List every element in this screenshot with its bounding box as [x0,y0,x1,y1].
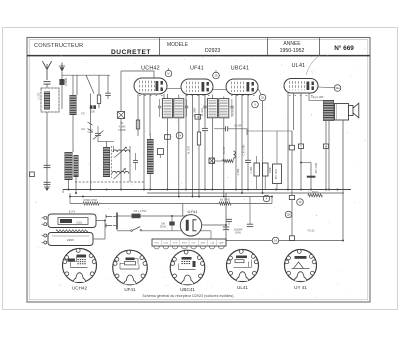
capacitor C4 to ground [44,181,51,183]
capacitor C16 electrolytic [307,176,316,178]
wire J2 out [93,238,105,240]
svg-text:MODELE: MODELE [167,42,189,48]
MF2 coupling dashes [217,100,219,116]
svg-text:F.B.L 0,75A: F.B.L 0,75A [134,210,147,213]
trimmer MF1 right [185,105,188,107]
svg-text:220V: 220V [67,238,75,242]
svg-text:50-60: 50-60 [160,226,167,229]
svg-text:PO: PO [81,113,85,116]
capacitor C2 feedthrough [59,79,64,85]
svg-text:ANNEE: ANNEE [283,41,301,47]
svg-text:6,3 V: 6,3 V [69,209,76,213]
wire MF1 sec down [178,118,180,197]
ref M [165,70,172,77]
svg-text:UBC41: UBC41 [180,287,195,292]
adjustable coil L7 [112,171,129,173]
IF transformer MF1 primary [162,99,172,118]
wire v77 [76,75,78,95]
svg-text:M: M [167,72,169,76]
box 12 small [289,195,294,199]
wire slanted [86,75,94,93]
ref 16b [272,237,279,244]
heater chain bumps [154,246,160,249]
svg-text:T: T [300,145,302,149]
ref 4 [263,195,270,202]
wire fuse out [141,215,187,217]
svg-text:UCH42: UCH42 [72,285,88,290]
wire UL41 pin1 [287,93,289,190]
capacitor C3 on lead [44,164,51,166]
svg-text:BL 187: BL 187 [224,146,226,154]
svg-text:25MF: 25MF [270,166,272,172]
ref 12b [285,211,292,218]
ref 16c [297,199,304,206]
wire MF1 sec top [178,95,180,99]
terminal lug [30,172,35,177]
svg-text:12a: 12a [335,86,340,90]
svg-text:0,1MF: 0,1MF [251,166,253,173]
box 14b [165,135,171,140]
wire UCH42 pin3 [149,94,151,136]
wire L4 to bus [75,177,77,193]
shield dashed bottom [75,181,145,183]
resistor R5 tall [273,164,282,184]
box T [298,144,303,148]
svg-text:45V 750Ω: 45V 750Ω [276,169,278,180]
svg-text:Bd 50HZ: Bd 50HZ [220,199,230,202]
box 14a [157,149,163,155]
socket view UBC41 [170,250,205,285]
coil L5 padding [103,147,110,177]
svg-text:Schéma général du récepteur D2: Schéma général du récepteur D2923 (voitu… [142,294,234,298]
svg-text:N° 669: N° 669 [334,44,354,52]
wire UL41 pin4 [308,93,310,101]
svg-text:1950-1952: 1950-1952 [280,48,305,54]
capacitor C6 pair [90,105,93,109]
output transformer primary [323,100,334,121]
svg-text:GO: GO [81,128,85,131]
pin number marks [139,95,141,97]
box 12 top [289,145,294,150]
socket view UL41 [227,250,259,282]
ref 12a [334,85,341,92]
wire UL41 pin3 to T [300,93,302,144]
sheet inner border [29,40,368,300]
heater line left [69,197,71,204]
svg-text:UF41: UF41 [124,287,136,292]
speaker driver [349,106,354,116]
ref 16a [259,94,266,101]
wire MF1 pri top [166,94,168,99]
capacitor C15 [247,223,253,225]
resistor R3 [136,120,139,129]
wire MF2 pri down [211,118,213,190]
antenna coil shield box (dashed) [41,88,59,112]
svg-text:200M: 200M [200,243,205,245]
socket view UF41 [113,250,148,285]
wire M drop [325,121,327,144]
wire box14a down [159,155,161,158]
stray pencil arc [306,56,319,75]
svg-text:W467: W467 [182,243,187,245]
trimmer MF1 left [158,105,161,107]
band switch contacts [88,122,93,132]
wire v292 [291,131,293,145]
wire to strip [210,231,212,239]
wire v99 [98,75,100,95]
wire MF2 sec down [223,118,225,197]
wire coupling down [246,129,248,135]
svg-text:CONSTRUCTEUR: CONSTRUCTEUR [34,43,83,49]
svg-text:W.500 OHM: W.500 OHM [83,199,97,202]
svg-text:BL 250: BL 250 [233,108,235,116]
ground chassis [44,187,50,190]
tube UBC41 [226,79,258,95]
IF transformer MF2 secondary [219,99,229,118]
coil L3 osc [65,152,73,180]
capacitor C5 [105,92,111,94]
trimmer MF2 right [230,105,233,107]
wire speaker return [342,120,344,241]
wire UY41 top [185,215,187,216]
svg-text:UY41: UY41 [187,209,198,214]
output transformer core [335,104,349,121]
svg-text:LAMP: LAMP [219,242,225,245]
svg-text:UL41: UL41 [292,63,306,69]
connector J1 6V [48,214,96,228]
capacitor C9 [245,159,251,161]
svg-text:4,7MΩ: 4,7MΩ [119,127,126,129]
svg-text:UY 41: UY 41 [294,285,307,290]
junction dots [46,189,48,191]
wire M to bus [325,148,327,190]
terminal strip [152,239,226,246]
wire UBC41 pin3 [247,95,249,161]
wire UCH42 anode [163,94,165,99]
svg-text:500.Ω: 500.Ω [312,191,319,194]
capacitor C8 [202,127,208,129]
wire transformer down [328,121,330,190]
wire UF41 pin1 [185,95,187,191]
resistor R4 [197,132,200,145]
wire UBC41 link [213,88,226,90]
socket view UCH42 [63,249,97,283]
capacitor C11 can [254,163,260,176]
capacitor C12 can [263,163,269,176]
svg-text:UL41: UL41 [164,243,169,245]
svg-text:12b: 12b [286,213,291,217]
header divider annee/numero [319,38,321,56]
tube UF41 [181,79,213,95]
fuse F1 [132,214,141,219]
wire UF41 pin3 [198,95,200,133]
wire UL41 pin2 [293,93,295,130]
resistor R9 [308,194,323,197]
header divider constructeur/modele [159,38,161,56]
heater line right [231,203,272,205]
svg-text:CAg 0,1MF: CAg 0,1MF [311,96,324,99]
tube UCH42 [134,78,167,94]
wire MF2 sec top [223,97,225,99]
wire UBC41 pin1 [235,95,237,191]
trimmer CT1 [95,132,101,134]
svg-text:(24V): (24V) [235,231,241,234]
padder box X [118,112,125,119]
box M [323,144,328,148]
coil L9 choke [234,151,236,158]
potentiometer box [209,158,215,164]
wire ref16 down [262,101,264,193]
mains plug [116,213,118,230]
wire UCH42 pin1 [137,94,139,136]
svg-text:14 5MF: 14 5MF [118,130,126,132]
resistor R8 ballast [56,230,88,232]
capacitor C7 [133,159,138,161]
box C coupling [195,115,201,120]
wire L3 to bus [68,180,70,190]
socket view UY41 [285,250,317,282]
resistor R10 [223,160,234,163]
wire v90 [90,94,92,190]
sheet outer border [27,38,370,303]
wire plug to fuse [117,215,131,217]
wire UBC41 pin2 [241,95,243,194]
wire MF2 pri top [211,95,213,99]
adjustable coil L6 [113,150,130,152]
mains socket [106,215,112,228]
wire UF41 pin2 [192,95,194,197]
svg-text:DUCRETET: DUCRETET [111,49,151,56]
svg-text:FIL 52: FIL 52 [308,230,315,233]
MF1 coupling dashes [172,100,174,116]
resistor R7 hum [219,202,231,205]
capacitor C1 antenna series [44,81,51,83]
ref 19 [213,72,220,79]
svg-text:0,1 MF: 0,1 MF [234,125,242,128]
coil L8 osc sec [147,139,154,174]
coil L1 antenna [44,92,50,110]
trimmer MF2 left [203,105,206,107]
svg-text:C 47,5 BN: C 47,5 BN [244,144,246,155]
svg-text:5MMF: 5MMF [87,132,94,134]
svg-text:200: 200 [91,110,96,113]
heater line mid [99,203,219,205]
box fuse link [290,236,295,241]
J2 pins [44,234,47,237]
coil L2 RF [70,95,77,115]
series capacitor C10 [225,126,227,131]
bus B+ line [63,189,351,191]
J1 pins [44,216,47,219]
capacitor C14 filter [223,226,229,228]
IF transformer MF2 primary [207,99,217,118]
svg-text:W 12AF: W 12AF [188,145,191,154]
wire L1 down to bus [46,112,48,190]
wire UY41 cathode [202,224,226,226]
svg-text:45V 10MF: 45V 10MF [316,162,318,173]
capacitor C13 spark [169,221,174,223]
svg-text:W 12AF: W 12AF [201,107,204,116]
header divider modele/annee [267,38,269,56]
svg-text:UY41: UY41 [173,243,178,245]
wire h131 [247,130,292,132]
svg-text:UF41: UF41 [190,66,204,72]
svg-text:L1 250: L1 250 [39,92,41,100]
svg-text:UL41: UL41 [237,285,248,290]
earth terminal E [59,63,65,68]
svg-text:100MMF: 100MMF [66,77,68,87]
svg-text:UCH42: UCH42 [141,66,160,72]
wire T to bus [300,148,302,190]
svg-text:UF41: UF41 [154,243,159,245]
wire C2 to coil box [61,85,63,109]
wire top loop [121,70,154,72]
resistor R2 [97,95,100,104]
wire v130 [129,146,131,182]
wire lower right run [226,240,343,242]
wire MF1 pri down [166,118,168,190]
wire J1 out [96,220,105,222]
connector J2 220V [48,233,93,246]
wire earth drop [61,72,63,79]
shield dashed vert [111,146,113,178]
resistor R6 heater [83,202,99,205]
scan speckle texture [138,78,141,81]
IF transformer MF1 secondary [174,99,184,118]
wire grid bus y75 [62,74,110,76]
wire UCH42 pin2 [143,94,145,190]
wire bus left drop [69,193,71,197]
ref 9 [252,101,259,108]
bus ground line [70,196,272,198]
svg-text:BL 15MF: BL 15MF [194,107,196,117]
speaker cone [353,103,359,118]
svg-text:100Ω: 100Ω [76,221,82,224]
svg-text:D2923: D2923 [205,48,220,54]
wire v226 [225,193,227,239]
wire branch 162 [301,162,311,164]
ref 14 [176,132,183,139]
coil L4 osc [74,155,79,177]
svg-text:UBC41: UBC41 [231,66,249,72]
capacitor C17 [226,218,232,220]
wire padder down [120,119,122,190]
header bottom rule [27,55,370,57]
svg-text:C: C [197,115,199,119]
tube UL41 [284,79,318,94]
bus AVC line [147,192,344,194]
antenna A1 [42,61,51,80]
wire UF41 link [167,88,181,90]
switch S1 [116,226,118,230]
svg-text:0,5MF: 0,5MF [238,168,240,175]
